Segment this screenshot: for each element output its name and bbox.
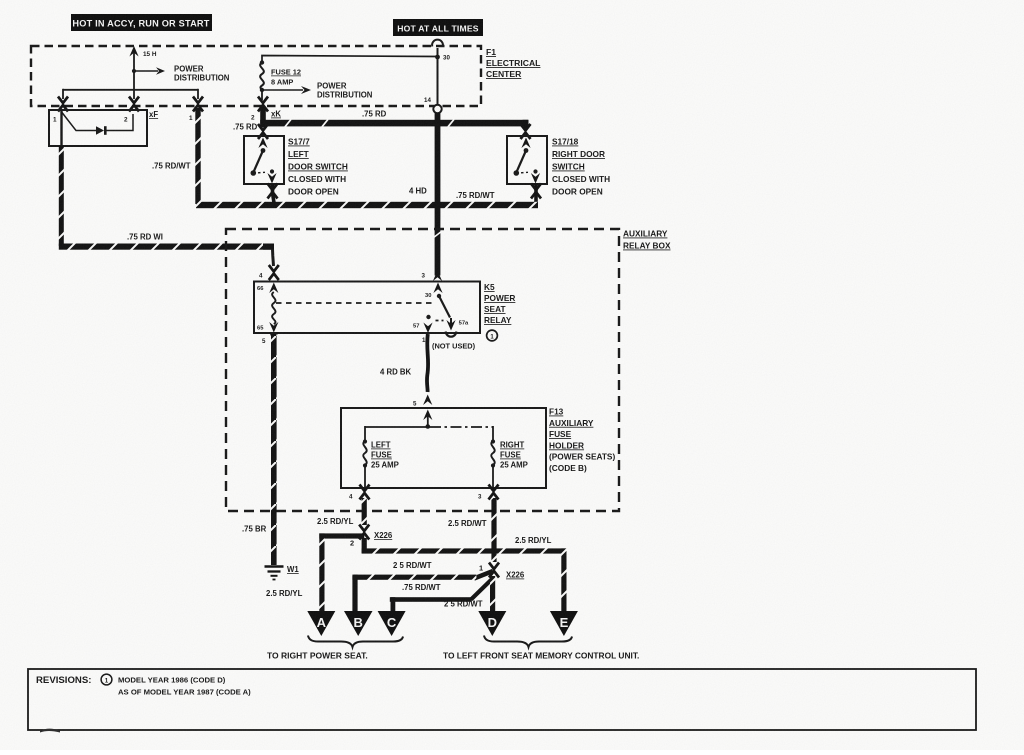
connector X226 pin 1 <box>479 563 525 580</box>
connector pin 1 of door circuit <box>193 97 203 112</box>
wire .75 BR relay to ground <box>242 334 277 565</box>
relay K5 contact 57 <box>413 315 444 333</box>
wire 4 RD BK relay to fuse holder <box>380 334 428 392</box>
left fuse 25 amp <box>363 426 399 487</box>
wire branch to terminal A <box>266 533 364 611</box>
connector pin 2 of xF <box>129 97 139 112</box>
label 2 xK <box>251 110 281 122</box>
inline connector on hot at all times feed <box>432 40 443 47</box>
wire 2.5 RD/YL branch to terminal E <box>362 536 567 611</box>
relay K5 pin 30 <box>425 283 443 300</box>
switch S17/18 contacts <box>514 138 541 184</box>
terminal A <box>307 611 335 636</box>
revisions box smudge <box>40 729 60 733</box>
wire hot at all times into F1 <box>437 48 439 104</box>
F13 internal feed bus <box>365 426 430 428</box>
right fuse 25 amp <box>491 426 528 487</box>
connector below right door switch <box>531 184 541 199</box>
wire bus inside F1 <box>63 89 198 99</box>
terminal E <box>550 611 578 636</box>
label S17/18 right door switch <box>552 137 610 197</box>
wire 2.5 RD/WT branch to terminal D <box>444 576 495 611</box>
wire pin1 xF down through housing <box>60 111 62 146</box>
relay K5 box <box>254 282 480 334</box>
switch S17/7 contacts <box>251 138 277 184</box>
relay K5 pin 66 and coil <box>257 283 278 325</box>
wire .75 RD feed from xK <box>233 107 529 132</box>
switch S17/7 left door switch box <box>244 136 284 184</box>
power label HOT IN ACCY RUN OR START <box>71 14 212 31</box>
terminal 14 connector circle <box>424 97 442 113</box>
label F13 auxiliary fuse holder <box>549 407 615 474</box>
label K5 power seat relay <box>484 282 515 325</box>
fuse box F1 electrical center dashed outline <box>31 46 481 106</box>
brace to memory control unit <box>484 636 572 648</box>
terminal D <box>478 611 506 636</box>
connector X226 pin 2 <box>350 525 393 548</box>
relay K5 pin 65 <box>257 322 278 333</box>
brace to right power seat <box>308 636 403 648</box>
wire 2.5 RD/WT from right fuse <box>448 498 497 562</box>
label auxiliary relay box <box>623 229 671 251</box>
revision symbol circled 1 <box>487 330 498 341</box>
wire 2.5 RD/WT branch to terminal B <box>352 561 493 611</box>
relay K5 pin 3 arrow <box>422 271 443 282</box>
fuse F12 8 amp <box>260 60 301 100</box>
connector above right door switch <box>521 124 531 139</box>
label F1 electrical center <box>486 47 540 79</box>
revisions box <box>28 669 976 730</box>
wire fuse 12 to node 30 <box>262 56 438 63</box>
relay K5 switch lever <box>437 294 450 318</box>
wire .75 RD WI horizontal run <box>59 233 274 250</box>
power label HOT AT ALL TIMES <box>393 19 483 36</box>
fuse holder F13 box <box>341 408 546 488</box>
connector above left door switch <box>258 124 268 139</box>
connector pin 1 of xF <box>58 97 68 112</box>
connector pin 3 of F13 <box>478 485 499 501</box>
wire 4 HD main vertical <box>409 113 442 276</box>
wire .75 RD/WT branch to terminal C <box>390 579 492 611</box>
wire stub to relay pin 4 <box>273 249 274 266</box>
label S17/7 left door switch <box>288 137 348 197</box>
revisions text <box>36 674 251 696</box>
relay box dashed outline auxiliary relay box <box>226 229 619 511</box>
relay K5 pin 1 not used <box>422 337 476 351</box>
relay K5 pin 4 <box>259 265 279 280</box>
ground W1 <box>265 565 300 580</box>
connector housing xF <box>49 110 158 146</box>
wire 2.5 RD/YL from left fuse <box>317 498 367 526</box>
wire 15 H with up arrow <box>129 46 156 90</box>
connector pin 5 of F13 <box>413 395 432 408</box>
switch S17/18 right door switch box <box>507 136 547 184</box>
connector below left door switch <box>268 184 278 199</box>
relay K5 armature dashed link <box>276 302 436 304</box>
connector pin 4 of F13 <box>349 485 370 501</box>
diode link inside xF <box>62 113 133 135</box>
connector pin 2 xK <box>258 97 268 112</box>
wire .75 RD WI left vertical <box>59 146 64 246</box>
wire .75 RD/WT door switch return bus <box>196 191 538 208</box>
terminal C <box>378 611 406 636</box>
node 30 <box>435 55 450 62</box>
relay K5 contact 57a <box>446 318 469 337</box>
relay K5 pin 5 <box>262 332 278 345</box>
power distribution arrow right <box>262 82 373 100</box>
wire right door switch drop <box>534 184 538 206</box>
wire left door switch to ground bus <box>273 184 275 206</box>
F13 pin 5 inner arrow and junction <box>423 410 432 429</box>
terminal B <box>344 611 373 636</box>
wire pin1 vertical .75 RD/WT <box>152 108 201 204</box>
node power distribution arrow left <box>132 65 230 83</box>
